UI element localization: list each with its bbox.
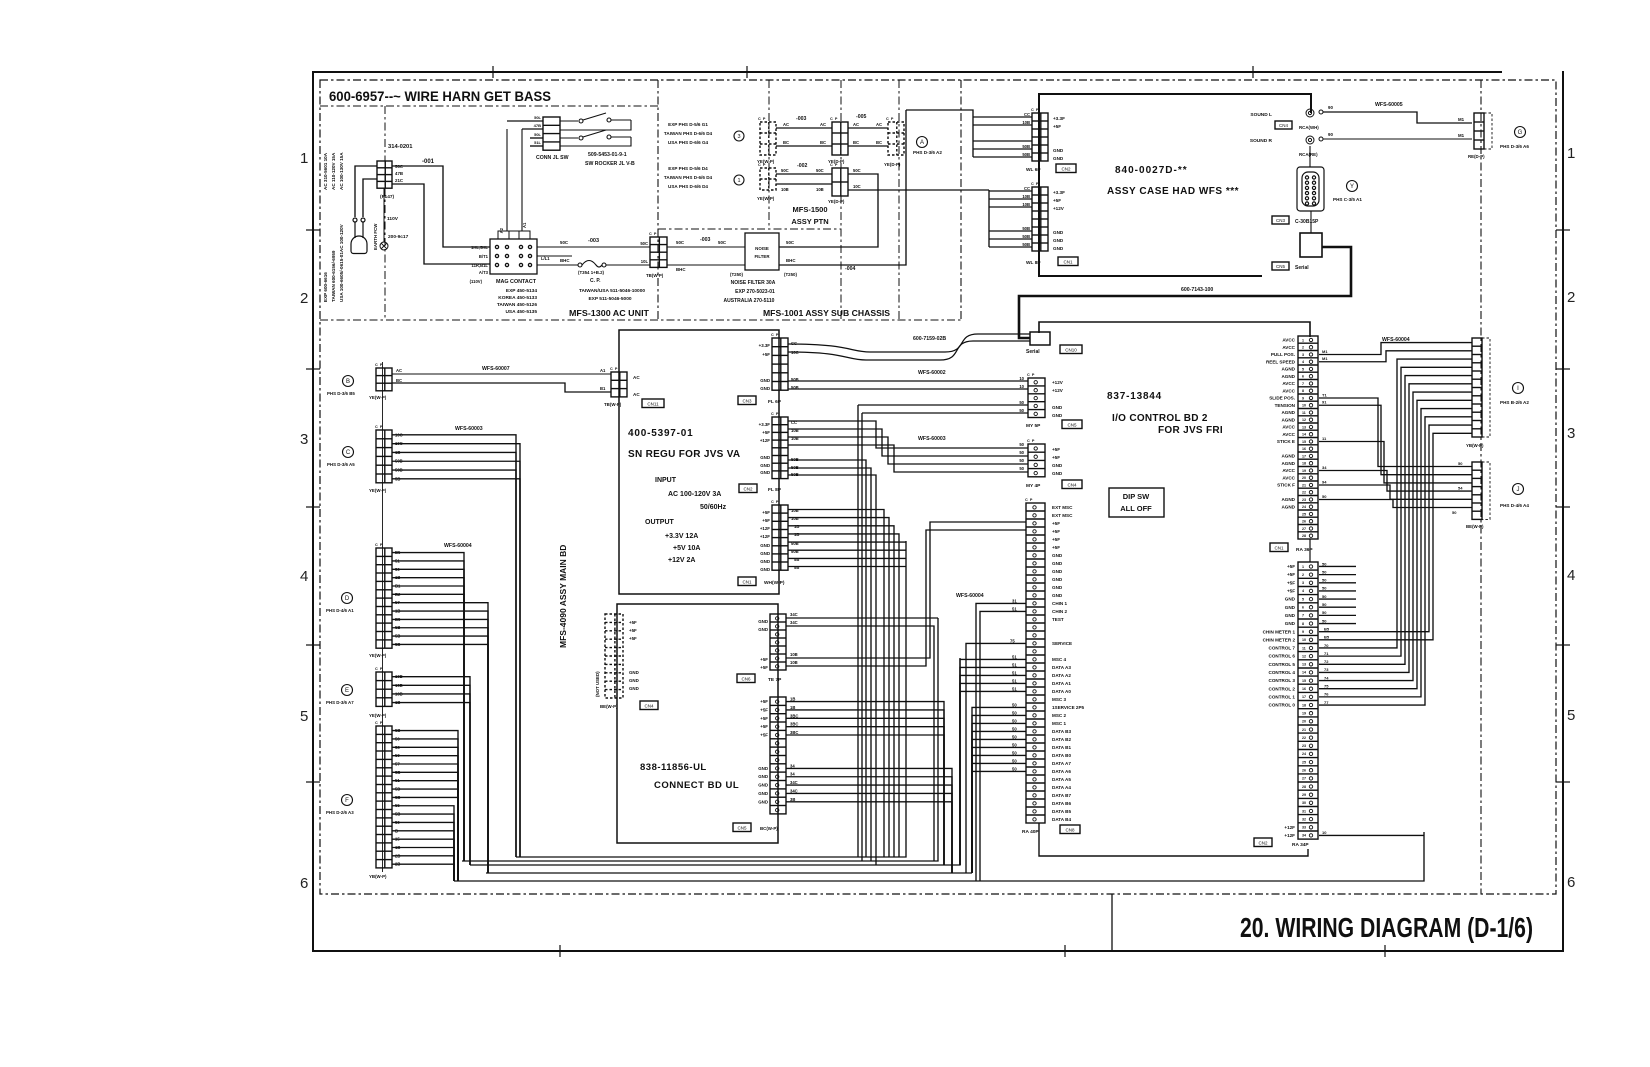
- io board top edge: [1039, 322, 1310, 337]
- case CN2 connector WL 6P: [1032, 113, 1048, 161]
- svg-text:18: 18: [1302, 462, 1306, 466]
- J pin stub labels: [1452, 461, 1463, 515]
- svg-text:KOREA 450-5133: KOREA 450-5133: [498, 295, 537, 301]
- svg-text:19: 19: [1302, 711, 1306, 715]
- svg-text:AGND: AGND: [1281, 461, 1295, 466]
- svg-text:34: 34: [1322, 465, 1327, 470]
- svg-text:4: 4: [1567, 567, 1575, 584]
- svg-text:-002: -002: [797, 163, 807, 169]
- svg-text:MFS-4090 ASSY MAIN BD: MFS-4090 ASSY MAIN BD: [558, 545, 568, 648]
- svg-text:CN4: CN4: [1279, 123, 1288, 128]
- AC plug symbol: [351, 218, 367, 254]
- svg-text:PHS D-3/6 A5: PHS D-3/6 A5: [327, 462, 355, 467]
- svg-text:B5: B5: [1324, 635, 1330, 640]
- svg-text:34: 34: [1302, 834, 1306, 838]
- connector BC(W-P) CN5: [770, 697, 786, 814]
- svg-text:CN2: CN2: [743, 487, 752, 492]
- svg-text:AC 110-120V 15A: AC 110-120V 15A: [331, 152, 336, 190]
- chin meter wires to I pins 11-12: [1319, 425, 1472, 640]
- svg-text:EXP 450-5134: EXP 450-5134: [506, 288, 537, 294]
- svg-text:DATA B3: DATA B3: [1052, 729, 1071, 734]
- svg-text:10B: 10B: [790, 660, 798, 665]
- wires MY5P gnd feeds: [858, 405, 1028, 861]
- svg-text:840-0027D-**: 840-0027D-**: [1115, 165, 1188, 176]
- MY5P right labels: [1052, 380, 1064, 418]
- svg-text:15: 15: [1302, 679, 1306, 683]
- circled J: [1513, 484, 1524, 495]
- boxed CN2 case: [1056, 164, 1076, 173]
- svg-text:WL 8P: WL 8P: [1026, 260, 1041, 266]
- svg-text:TAIWAN/USA 511-5046-10000: TAIWAN/USA 511-5046-10000: [579, 288, 645, 294]
- svg-text:C P: C P: [771, 412, 779, 416]
- svg-text:90: 90: [1328, 132, 1333, 137]
- circled F: [342, 795, 353, 806]
- part numbers TAIWAN/USA 511-5046: [579, 288, 645, 302]
- CN2 row34 wire +12F: [1319, 830, 1424, 835]
- svg-text:D: D: [345, 596, 350, 602]
- wire -001 run to mag contact pin3: [392, 184, 490, 264]
- svg-text:6: 6: [1302, 375, 1304, 379]
- svg-text:B: B: [346, 379, 350, 385]
- CN2 rows1-8 stub wires: [1319, 561, 1356, 623]
- svg-text:2: 2: [1567, 289, 1575, 306]
- svg-text:AC: AC: [876, 122, 882, 127]
- svg-text:51: 51: [1012, 670, 1017, 675]
- svg-text:21C: 21C: [395, 178, 404, 183]
- svg-text:GND: GND: [760, 543, 770, 548]
- svg-text:50: 50: [1012, 742, 1017, 747]
- boxed CN4 sound: [1275, 121, 1292, 129]
- svg-text:50: 50: [1322, 586, 1327, 591]
- svg-text:AVCC: AVCC: [1282, 338, 1295, 343]
- connector 314-0201 (F147): [377, 161, 392, 188]
- svg-text:GND: GND: [1285, 605, 1296, 610]
- TE left labels: [758, 619, 768, 670]
- svg-text:RA 36P: RA 36P: [1296, 547, 1313, 553]
- svg-text:50C: 50C: [816, 168, 824, 173]
- svg-text:DIP SW: DIP SW: [1123, 492, 1150, 501]
- svg-text:10B: 10B: [791, 516, 799, 521]
- svg-text:DATA B4: DATA B4: [1052, 817, 1071, 822]
- svg-text:5: 5: [1567, 707, 1575, 724]
- svg-text:TE 7P: TE 7P: [768, 677, 782, 683]
- svg-text:FOR JVS FRI: FOR JVS FRI: [1158, 425, 1223, 436]
- BE right labels: [629, 620, 639, 691]
- svg-text:BE(W-P): BE(W-P): [600, 704, 618, 709]
- svg-text:+5F: +5F: [762, 510, 770, 515]
- svg-text:11: 11: [1302, 646, 1306, 650]
- connector TB(W-P) noise filter input: [650, 237, 667, 267]
- svg-text:C P: C P: [610, 367, 618, 371]
- chain1 wires second AC/BC: [848, 122, 888, 146]
- svg-text:47B: 47B: [534, 123, 541, 128]
- wire earth drop: [383, 188, 385, 242]
- circled B: [343, 376, 354, 387]
- svg-text:51: 51: [1012, 654, 1017, 659]
- svg-text:51: 51: [1012, 606, 1017, 611]
- svg-text:50: 50: [1012, 726, 1017, 731]
- svg-text:1B: 1B: [790, 705, 795, 710]
- wires BC rows9-13 to harness: [786, 763, 952, 873]
- svg-text:B1: B1: [600, 386, 606, 391]
- case CN1 right labels: [1053, 190, 1065, 251]
- svg-text:YB(W-P): YB(W-P): [1466, 443, 1484, 448]
- svg-text:27: 27: [1302, 527, 1306, 531]
- wire breaker drop A1: [521, 129, 523, 231]
- svg-text:C P: C P: [1027, 373, 1035, 377]
- svg-text:EXT MSC: EXT MSC: [1052, 505, 1073, 510]
- svg-text:TAIWAN 450-5126: TAIWAN 450-5126: [497, 302, 537, 308]
- svg-text:+5F: +5F: [1052, 447, 1060, 452]
- svg-text:CN4: CN4: [1067, 483, 1076, 488]
- svg-text:CHIN 1: CHIN 1: [1052, 601, 1068, 606]
- svg-text:YE(W-P): YE(W-P): [369, 653, 387, 658]
- svg-text:26: 26: [1302, 520, 1306, 524]
- svg-text:DATA B5: DATA B5: [1052, 809, 1071, 814]
- svg-text:GND: GND: [1285, 613, 1296, 618]
- svg-text:15: 15: [1302, 440, 1306, 444]
- svg-text:OUTPUT: OUTPUT: [645, 519, 675, 526]
- connector CN1 RA 36P column: [1298, 336, 1318, 539]
- svg-text:+5V 10A: +5V 10A: [673, 545, 700, 552]
- wires into RA40P row 18: [966, 638, 1026, 873]
- connector E ladder: [376, 672, 392, 706]
- svg-text:SN REGU FOR JVS VA: SN REGU FOR JVS VA: [628, 449, 740, 460]
- svg-text:+12V: +12V: [1052, 388, 1064, 393]
- svg-text:M1: M1: [1322, 356, 1328, 361]
- svg-text:GND: GND: [758, 799, 768, 804]
- CN1 column pin numbers: [1302, 338, 1306, 538]
- svg-text:PHS D-3/6 B5: PHS D-3/6 B5: [327, 391, 355, 396]
- breaker connector CONN JL SW: [543, 117, 560, 150]
- svg-text:TEST: TEST: [1052, 617, 1064, 622]
- svg-text:24: 24: [1302, 505, 1306, 509]
- svg-text:+5F: +5F: [1287, 589, 1295, 594]
- svg-text:BHC: BHC: [786, 258, 796, 263]
- wire plug prong 2 to connector: [363, 179, 377, 217]
- svg-text:+12F: +12F: [760, 534, 770, 539]
- case CN1 pin wires: [906, 190, 1032, 247]
- wires D bundle: [392, 553, 488, 873]
- svg-text:29: 29: [1302, 793, 1306, 797]
- svg-text:26: 26: [1302, 769, 1306, 773]
- TB left pin labels: [640, 241, 648, 264]
- connector TB(W-P) CN11 regu AC input: [611, 372, 627, 397]
- mag contact part numbers: [497, 288, 538, 315]
- circled 3: [734, 131, 744, 141]
- chain1 wires AC/BC: [776, 122, 832, 146]
- circled C: [343, 447, 354, 458]
- svg-text:SOUND L: SOUND L: [1250, 112, 1272, 118]
- svg-text:14: 14: [1302, 433, 1306, 437]
- svg-text:50: 50: [1322, 618, 1327, 623]
- svg-text:BC: BC: [876, 140, 882, 145]
- connector I ladder YB: [1472, 338, 1482, 437]
- svg-text:50C: 50C: [781, 168, 789, 173]
- svg-text:50: 50: [1322, 569, 1327, 574]
- svg-text:110V: 110V: [387, 216, 399, 222]
- svg-text:BE(W-P): BE(W-P): [1466, 524, 1484, 529]
- io serial connector: [1030, 332, 1050, 345]
- svg-text:MFS-1001 ASSY SUB CHASSIS: MFS-1001 ASSY SUB CHASSIS: [763, 308, 890, 318]
- svg-text:3B: 3B: [790, 797, 795, 802]
- svg-text:YE(D-P): YE(D-P): [828, 199, 845, 204]
- svg-text:1SERVICE 2P5: 1SERVICE 2P5: [1052, 705, 1085, 710]
- wire B to TB(W-P) BC: [392, 383, 611, 392]
- svg-text:CN1: CN1: [1274, 546, 1283, 551]
- svg-text:3BC: 3BC: [790, 713, 798, 718]
- svg-text:GND: GND: [1052, 585, 1063, 590]
- svg-text:+5F: +5F: [760, 657, 768, 662]
- svg-text:STICK F: STICK F: [1277, 483, 1295, 488]
- svg-text:CN1: CN1: [1063, 260, 1072, 265]
- circled G: [1515, 127, 1526, 138]
- chain2 wires 50C/10B: [776, 168, 832, 192]
- svg-text:NOISE FILTER 30A: NOISE FILTER 30A: [731, 280, 776, 286]
- svg-text:CN3: CN3: [742, 399, 751, 404]
- svg-text:C P: C P: [1025, 498, 1033, 502]
- svg-text:-003: -003: [796, 116, 806, 122]
- svg-text:GND: GND: [1052, 553, 1063, 558]
- boxed CN5 io: [1062, 420, 1082, 429]
- svg-text:27: 27: [1302, 777, 1306, 781]
- svg-text:PHS D-2/6 A3: PHS D-2/6 A3: [326, 810, 354, 815]
- svg-text:50: 50: [1019, 408, 1024, 413]
- wire mag pin2 stub: [537, 255, 572, 257]
- earth symbol: [380, 242, 388, 250]
- svg-text:CC: CC: [1024, 186, 1030, 191]
- svg-text:(110V): (110V): [470, 279, 483, 284]
- svg-text:GND: GND: [758, 774, 768, 779]
- svg-text:1B: 1B: [790, 697, 795, 702]
- svg-text:DATA A1: DATA A1: [1052, 681, 1071, 686]
- svg-text:14: 14: [1302, 671, 1306, 675]
- PTN chain1 connector c dashed: [888, 122, 904, 155]
- svg-text:A2: A2: [499, 227, 504, 233]
- CN2 column pin numbers: [1302, 565, 1306, 838]
- svg-text:32: 32: [1302, 817, 1306, 821]
- svg-text:INPUT: INPUT: [655, 477, 677, 484]
- svg-text:T1: T1: [1322, 392, 1327, 397]
- circled A: [917, 137, 928, 148]
- case CN2 left labels: [1022, 112, 1030, 157]
- svg-text:+5F: +5F: [760, 665, 768, 670]
- svg-text:+12F: +12F: [1284, 833, 1295, 838]
- wire RCA R to dsub: [1309, 146, 1311, 167]
- F stub labels: [395, 728, 400, 867]
- svg-text:3: 3: [1302, 353, 1304, 357]
- svg-text:PHS D-4/6 A4: PHS D-4/6 A4: [1500, 503, 1529, 508]
- svg-text:WFS-60007: WFS-60007: [482, 366, 510, 372]
- svg-text:76: 76: [1324, 692, 1329, 697]
- svg-text:MSC 1: MSC 1: [1052, 721, 1066, 726]
- svg-text:C P: C P: [758, 117, 766, 121]
- svg-text:600-7159-02B: 600-7159-02B: [913, 336, 946, 342]
- svg-text:-003: -003: [700, 237, 710, 243]
- svg-text:CONTROL 7: CONTROL 7: [1269, 646, 1296, 651]
- connector TE 7P CN6: [770, 614, 786, 670]
- connector C ladder: [376, 430, 392, 483]
- svg-text:AGND: AGND: [1281, 410, 1295, 415]
- svg-text:17: 17: [1302, 695, 1306, 699]
- svg-text:5: 5: [1302, 367, 1304, 371]
- svg-text:+12F: +12F: [760, 526, 770, 531]
- svg-text:10L: 10L: [641, 259, 649, 264]
- column tie cn1-cn2: [1309, 539, 1311, 562]
- RCA jack sound L: [1306, 109, 1323, 117]
- wires E bundle: [392, 677, 470, 865]
- svg-text:10: 10: [1302, 404, 1306, 408]
- svg-text:TAIWAN PHS D-6/6 D4: TAIWAN PHS D-6/6 D4: [664, 175, 713, 180]
- PTN chain2 connector b: [832, 168, 848, 196]
- svg-text:12: 12: [1302, 654, 1306, 658]
- svg-text:50C: 50C: [676, 240, 685, 245]
- svg-text:4: 4: [1302, 589, 1304, 593]
- svg-text:EXP 270-5023-01: EXP 270-5023-01: [735, 289, 775, 295]
- regu connector CN1 WH 8P: [772, 505, 788, 570]
- svg-text:USA PHS D-6/6 G4: USA PHS D-6/6 G4: [668, 140, 709, 145]
- svg-text:50: 50: [1012, 766, 1017, 771]
- wire TB to noise filter BHC: [667, 264, 745, 266]
- svg-text:C P: C P: [375, 667, 383, 671]
- svg-text:AGND: AGND: [1281, 504, 1295, 509]
- CN3 right labels: [791, 341, 799, 390]
- svg-text:STICK E: STICK E: [1277, 439, 1295, 444]
- svg-text:+5F: +5F: [760, 724, 768, 729]
- svg-text:50B: 50B: [1022, 234, 1030, 239]
- svg-text:50C: 50C: [718, 240, 727, 245]
- boxed CN3 regu: [738, 396, 756, 405]
- wire CN3 50B to MY5P row1: [788, 380, 1028, 382]
- svg-text:AVCC: AVCC: [1282, 381, 1295, 386]
- svg-text:M1: M1: [1458, 133, 1465, 138]
- svg-text:4: 4: [1302, 360, 1304, 364]
- svg-text:+12V: +12V: [1053, 206, 1065, 211]
- boxed CN8 io: [1060, 825, 1080, 834]
- svg-text:10C: 10C: [853, 184, 861, 189]
- svg-text:600-7143-100: 600-7143-100: [1181, 287, 1213, 293]
- zone divider dash-dot vertical x=1481: [1480, 80, 1482, 894]
- svg-text:51: 51: [1012, 686, 1017, 691]
- svg-text:+5F: +5F: [1287, 580, 1295, 585]
- svg-text:DATA A5: DATA A5: [1052, 777, 1071, 782]
- svg-text:+3.3F: +3.3F: [1053, 116, 1065, 121]
- svg-text:WFS-60003: WFS-60003: [455, 426, 483, 432]
- svg-text:31: 31: [1012, 598, 1017, 603]
- svg-text:-003: -003: [588, 238, 599, 244]
- circled 1: [734, 175, 744, 185]
- svg-text:21: 21: [1302, 483, 1306, 487]
- svg-text:77: 77: [1324, 700, 1329, 705]
- svg-text:18: 18: [1302, 703, 1306, 707]
- connector I dashed shell: [1482, 338, 1490, 437]
- svg-text:AVCC: AVCC: [1282, 345, 1295, 350]
- svg-text:AVCC: AVCC: [1282, 475, 1295, 480]
- svg-text:BC(W-P): BC(W-P): [760, 826, 778, 831]
- svg-text:50: 50: [1019, 466, 1024, 471]
- svg-text:GND: GND: [760, 378, 770, 383]
- svg-text:AC: AC: [820, 122, 826, 127]
- svg-text:TB(W-P): TB(W-P): [604, 402, 622, 407]
- connector G ladder: [1474, 113, 1484, 149]
- svg-text:GND: GND: [1053, 148, 1064, 153]
- svg-text:(T250): (T250): [730, 272, 743, 277]
- svg-text:+5F: +5F: [1287, 564, 1295, 569]
- svg-text:-001: -001: [422, 159, 435, 165]
- title block left edge: [1111, 894, 1113, 951]
- PTN box divider x=769: [768, 80, 770, 229]
- svg-text:C: C: [346, 450, 351, 456]
- svg-text:C P: C P: [649, 232, 657, 236]
- svg-text:+5F: +5F: [762, 352, 770, 357]
- svg-text:WFS-60003: WFS-60003: [918, 436, 946, 442]
- svg-text:AVCC: AVCC: [1282, 388, 1295, 393]
- svg-text:33: 33: [1302, 826, 1306, 830]
- svg-text:Y: Y: [1350, 184, 1354, 190]
- TB regu stub labels AC: [600, 368, 640, 397]
- svg-text:50: 50: [1322, 610, 1327, 615]
- svg-text:10: 10: [1322, 830, 1327, 835]
- svg-text:8: 8: [1302, 622, 1304, 626]
- PTN chain2 EXP/TAIWAN/USA text: [664, 166, 713, 189]
- wire CN3 50B to MY5P row2: [788, 388, 1028, 390]
- svg-text:+12F: +12F: [1284, 825, 1295, 830]
- svg-text:50B: 50B: [1022, 152, 1030, 157]
- svg-text:10B: 10B: [1022, 120, 1030, 125]
- svg-text:GND: GND: [1053, 246, 1064, 251]
- svg-text:C-30B15P: C-30B15P: [1295, 219, 1319, 225]
- svg-text:+5F: +5F: [1052, 455, 1060, 460]
- svg-text:34C: 34C: [790, 780, 798, 785]
- svg-text:+12F: +12F: [760, 438, 770, 443]
- boxed CN1 case: [1058, 257, 1078, 266]
- svg-text:50: 50: [1019, 442, 1024, 447]
- svg-text:7: 7: [1302, 382, 1304, 386]
- svg-text:GND: GND: [758, 619, 768, 624]
- svg-text:50: 50: [1012, 758, 1017, 763]
- connector G dashed shell: [1484, 113, 1492, 149]
- svg-text:10: 10: [1019, 376, 1024, 381]
- svg-text:34C: 34C: [790, 788, 798, 793]
- svg-text:+5F: +5F: [629, 636, 637, 641]
- svg-text:50B: 50B: [1022, 226, 1030, 231]
- svg-text:FL 8P: FL 8P: [768, 487, 782, 493]
- svg-text:CONTROL 2: CONTROL 2: [1269, 686, 1296, 691]
- svg-text:50: 50: [1322, 594, 1327, 599]
- svg-text:AGND: AGND: [1281, 497, 1295, 502]
- wires F bundle: [392, 731, 458, 881]
- CN3 left labels: [759, 343, 771, 391]
- boxed CN10: [1060, 345, 1082, 354]
- inner dash-dot frame: [320, 80, 1556, 894]
- svg-text:MSC 2: MSC 2: [1052, 713, 1066, 718]
- svg-text:50: 50: [1012, 710, 1017, 715]
- svg-text:3: 3: [1567, 425, 1575, 442]
- svg-text:838-11856-UL: 838-11856-UL: [640, 762, 707, 773]
- CN1 left labels: [760, 510, 770, 572]
- harness run y881: [454, 832, 1424, 881]
- svg-text:10: 10: [1302, 638, 1306, 642]
- svg-text:YE(D-P): YE(D-P): [884, 162, 901, 167]
- pin labels 314-0201: [395, 164, 404, 183]
- svg-text:YE(W-P): YE(W-P): [369, 395, 387, 400]
- svg-text:22: 22: [1302, 491, 1306, 495]
- svg-text:EXP 600-6616: EXP 600-6616: [323, 272, 328, 302]
- svg-text:+12V 2A: +12V 2A: [668, 557, 695, 564]
- svg-text:+5F: +5F: [760, 732, 768, 737]
- svg-text:600-6957--~ WIRE HARN GET BAS: 600-6957--~ WIRE HARN GET BASS: [329, 89, 551, 104]
- svg-text:YE(W-P): YE(W-P): [369, 488, 387, 493]
